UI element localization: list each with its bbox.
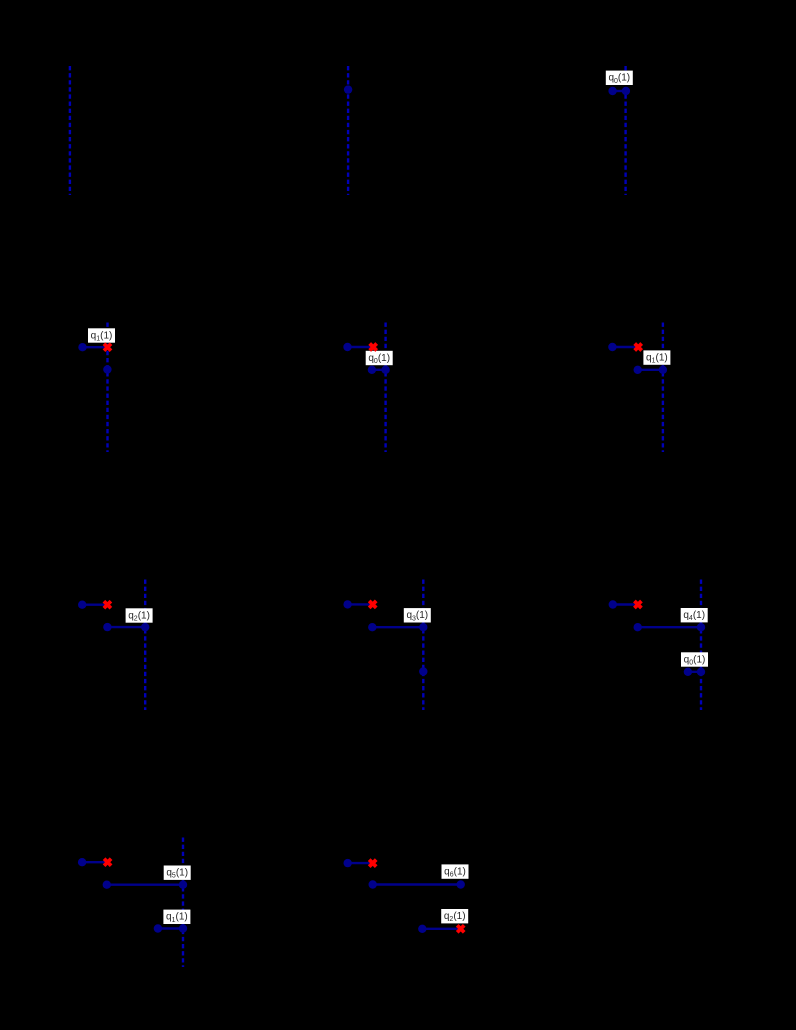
svg-text:q2(1): q2(1) bbox=[128, 610, 150, 622]
svg-text:q6(1): q6(1) bbox=[444, 867, 466, 879]
svg-text:q2(1): q2(1) bbox=[444, 911, 466, 923]
svg-text:q1(1): q1(1) bbox=[166, 912, 188, 924]
svg-text:q1(1): q1(1) bbox=[91, 330, 113, 342]
svg-text:q0(1): q0(1) bbox=[684, 654, 706, 666]
svg-text:q4(1): q4(1) bbox=[683, 610, 705, 622]
svg-text:q1(1): q1(1) bbox=[646, 353, 668, 365]
svg-text:q5(1): q5(1) bbox=[166, 868, 188, 880]
svg-text:q0(1): q0(1) bbox=[368, 353, 390, 365]
svg-text:q3(1): q3(1) bbox=[406, 610, 428, 622]
svg-text:q0(1): q0(1) bbox=[608, 73, 630, 85]
